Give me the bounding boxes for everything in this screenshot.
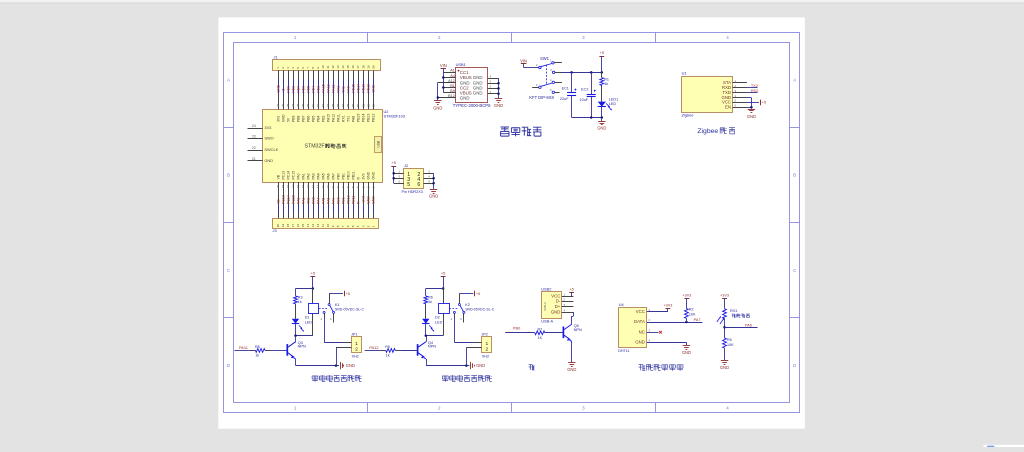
svg-text:PB7: PB7	[301, 115, 305, 122]
svg-text:17: 17	[291, 224, 295, 228]
svg-text:B1: B1	[450, 84, 455, 88]
svg-text:PC14: PC14	[286, 195, 290, 204]
svg-text:VCC: VCC	[636, 309, 645, 314]
svg-text:B12: B12	[448, 94, 455, 98]
svg-text:PB14: PB14	[356, 84, 360, 93]
svg-text:LED: LED	[435, 320, 442, 324]
svg-text:PA6: PA6	[326, 173, 330, 179]
svg-text:Zigbee: Zigbee	[697, 128, 718, 135]
svg-text:PC13: PC13	[281, 171, 285, 180]
svg-text:LED: LED	[609, 102, 617, 106]
svg-text:SWO: SWO	[264, 136, 273, 141]
svg-text:GND: GND	[460, 80, 470, 85]
svg-text:9: 9	[316, 67, 320, 69]
svg-text:+3V3: +3V3	[663, 304, 672, 308]
svg-text:TXD: TXD	[722, 90, 731, 95]
svg-text:PA0: PA0	[296, 198, 300, 204]
svg-text:19: 19	[366, 65, 370, 69]
svg-text:R2: R2	[689, 307, 694, 311]
svg-text:SRD-05VDC-SL-C: SRD-05VDC-SL-C	[335, 307, 365, 311]
svg-text:RXD: RXD	[722, 85, 731, 90]
svg-text:DHT11: DHT11	[618, 349, 629, 353]
svg-text:B: B	[793, 173, 796, 178]
svg-text:+5: +5	[600, 50, 604, 55]
svg-text:GND: GND	[635, 339, 644, 344]
svg-text:PB0: PB0	[336, 197, 340, 204]
svg-text:GND: GND	[281, 114, 285, 122]
svg-text:7: 7	[306, 67, 310, 69]
svg-text:GND: GND	[473, 86, 483, 91]
svg-text:KFT DIP-8X8: KFT DIP-8X8	[529, 95, 554, 100]
svg-text:14: 14	[306, 224, 310, 228]
svg-text:6: 6	[346, 225, 350, 227]
svg-text:A1: A1	[450, 68, 455, 72]
svg-text:R6: R6	[428, 295, 433, 299]
svg-text:PB5: PB5	[311, 115, 315, 122]
svg-text:NPN: NPN	[298, 344, 306, 349]
svg-text:10: 10	[326, 224, 330, 228]
svg-text:GND: GND	[494, 103, 503, 108]
svg-text:XH2: XH2	[352, 355, 359, 359]
svg-text:1: 1	[485, 341, 488, 347]
svg-text:TX1: TX1	[341, 86, 345, 92]
svg-text:2: 2	[366, 225, 370, 227]
svg-text:PB4: PB4	[311, 86, 315, 93]
svg-text:1k: 1k	[604, 82, 608, 86]
svg-text:18: 18	[286, 224, 290, 228]
svg-text:Zigbee: Zigbee	[681, 113, 695, 118]
svg-text:VCC: VCC	[551, 293, 560, 298]
svg-text:PB7: PB7	[296, 86, 300, 93]
svg-text:16: 16	[296, 224, 300, 228]
svg-text:GND: GND	[597, 126, 606, 131]
svg-text:PA7: PA7	[331, 173, 335, 179]
svg-text:J1: J1	[274, 55, 278, 60]
svg-text:13: 13	[336, 65, 340, 69]
svg-text:PB9: PB9	[286, 86, 290, 93]
svg-text:D2: D2	[435, 316, 440, 320]
svg-text:17: 17	[356, 65, 360, 69]
svg-text:1k: 1k	[298, 300, 302, 304]
svg-text:PA12: PA12	[369, 345, 378, 350]
svg-text:GND: GND	[276, 84, 280, 92]
svg-text:14: 14	[341, 65, 345, 69]
svg-text:RX1: RX1	[341, 115, 345, 122]
svg-text:K1: K1	[335, 303, 340, 307]
svg-text:PB0: PB0	[513, 326, 521, 331]
svg-text:Pin HDR2X3: Pin HDR2X3	[402, 190, 423, 194]
svg-text:CC1: CC1	[460, 70, 469, 75]
svg-text:GND: GND	[429, 193, 438, 198]
svg-text:PB0: PB0	[336, 173, 340, 180]
svg-text:CC2: CC2	[460, 86, 469, 91]
svg-text:B: B	[227, 173, 230, 178]
svg-text:11: 11	[321, 224, 325, 227]
svg-text:R7: R7	[537, 327, 542, 331]
svg-text:20: 20	[276, 224, 280, 228]
svg-text:PB11: PB11	[351, 171, 355, 179]
svg-text:GND: GND	[366, 196, 370, 204]
svg-text:GND: GND	[366, 171, 370, 179]
svg-text:TX2: TX2	[751, 83, 758, 88]
svg-text:24: 24	[252, 124, 256, 128]
svg-text:19: 19	[281, 224, 285, 228]
svg-text:SWCLK: SWCLK	[264, 147, 278, 152]
svg-text:PB13: PB13	[366, 114, 370, 122]
svg-text:3: 3	[361, 225, 365, 227]
svg-text:PA2: PA2	[306, 173, 310, 179]
svg-text:PA12: PA12	[331, 114, 335, 122]
svg-text:GND: GND	[433, 105, 442, 110]
svg-text:GND: GND	[567, 367, 576, 372]
svg-text:PB6: PB6	[306, 115, 310, 122]
svg-text:23: 23	[252, 135, 256, 139]
svg-text:11: 11	[326, 65, 330, 68]
svg-text:PB15: PB15	[351, 84, 355, 93]
svg-text:PB8: PB8	[291, 86, 295, 93]
svg-text:R1: R1	[604, 78, 609, 82]
svg-text:15: 15	[346, 65, 350, 69]
svg-text:+5: +5	[762, 100, 766, 105]
svg-text:2: 2	[485, 346, 488, 352]
svg-text:RX2: RX2	[311, 197, 315, 204]
svg-text:VBUS: VBUS	[460, 91, 472, 96]
svg-text:1K: 1K	[538, 336, 543, 340]
svg-text:STA: STA	[723, 80, 731, 85]
svg-text:A12: A12	[448, 79, 455, 83]
svg-text:4: 4	[291, 67, 295, 69]
svg-text:A4: A4	[450, 74, 455, 78]
svg-text:A: A	[793, 78, 796, 83]
svg-text:VIN: VIN	[520, 58, 527, 63]
svg-text:RX1: RX1	[336, 86, 340, 93]
svg-text:PA8: PA8	[351, 116, 355, 122]
svg-text:EC2: EC2	[581, 88, 588, 92]
svg-text:PC13: PC13	[281, 195, 285, 204]
svg-text:D1: D1	[305, 316, 310, 320]
svg-text:+5: +5	[281, 89, 285, 93]
svg-text:5: 5	[351, 225, 355, 227]
svg-text:1k: 1k	[428, 300, 432, 304]
svg-text:PA8: PA8	[346, 86, 350, 92]
svg-text:PA12: PA12	[326, 84, 330, 92]
svg-text:D-: D-	[556, 299, 561, 304]
svg-text:GND: GND	[722, 95, 731, 100]
svg-text:LED: LED	[305, 320, 312, 324]
svg-text:D: D	[227, 363, 230, 368]
svg-text:A: A	[227, 78, 230, 83]
svg-text:12: 12	[331, 65, 335, 69]
svg-text:SRD-05VDC-SL-C: SRD-05VDC-SL-C	[465, 307, 495, 311]
svg-text:PB11: PB11	[351, 196, 355, 204]
svg-text:3V3: 3V3	[361, 173, 365, 179]
svg-text:K2: K2	[465, 303, 470, 307]
svg-text:VB: VB	[276, 199, 280, 204]
svg-text:RG1: RG1	[730, 309, 738, 313]
svg-text:PA0: PA0	[296, 173, 300, 179]
svg-text:SW1: SW1	[540, 56, 550, 61]
svg-text:10K: 10K	[689, 313, 696, 317]
svg-text:EC1: EC1	[562, 86, 569, 90]
svg-text:10uF: 10uF	[580, 98, 589, 102]
svg-text:+5: +5	[441, 271, 445, 276]
svg-text:R9: R9	[385, 345, 390, 349]
svg-text:STM32F103: STM32F103	[384, 114, 405, 119]
svg-text:R5: R5	[727, 338, 732, 342]
svg-text:PB6: PB6	[301, 86, 305, 93]
svg-text:+3V3: +3V3	[720, 294, 729, 298]
svg-text:20: 20	[371, 65, 375, 69]
svg-text:+5: +5	[346, 291, 350, 296]
svg-text:U4: U4	[619, 302, 625, 307]
svg-text:TX1: TX1	[346, 116, 350, 122]
svg-text:+5: +5	[476, 291, 480, 296]
svg-text:DATA: DATA	[634, 319, 645, 324]
svg-text:+5: +5	[391, 160, 395, 165]
svg-text:RX2: RX2	[751, 88, 759, 93]
svg-text:GND: GND	[747, 114, 756, 119]
svg-text:GND: GND	[371, 171, 375, 179]
svg-text:22: 22	[252, 146, 256, 150]
svg-text:PB10: PB10	[346, 171, 350, 179]
svg-text:PA11: PA11	[239, 345, 248, 350]
svg-text:6: 6	[301, 67, 305, 69]
svg-text:PA5: PA5	[321, 173, 325, 179]
svg-text:PA15: PA15	[321, 84, 325, 92]
svg-text:PB3: PB3	[321, 115, 325, 122]
svg-text:GND: GND	[264, 158, 273, 163]
svg-text:PB8: PB8	[296, 115, 300, 122]
svg-text:PA5: PA5	[745, 323, 752, 327]
svg-text:PB4: PB4	[316, 115, 320, 122]
svg-text:XH2: XH2	[482, 355, 489, 359]
svg-text:+3V3: +3V3	[682, 294, 691, 298]
svg-text:+5: +5	[311, 271, 315, 276]
svg-text:12: 12	[316, 224, 320, 228]
svg-text:PB1: PB1	[341, 197, 345, 204]
svg-text:PA7: PA7	[331, 198, 335, 204]
svg-text:GND: GND	[473, 91, 483, 96]
svg-text:USB-A: USB-A	[541, 319, 553, 324]
svg-text:PA3: PA3	[311, 173, 315, 179]
svg-text:+3V3: +3V3	[361, 196, 365, 204]
svg-text:GND: GND	[476, 363, 485, 368]
svg-text:15: 15	[301, 224, 305, 228]
svg-text:22uF: 22uF	[560, 97, 569, 101]
svg-text:5V: 5V	[286, 117, 290, 122]
svg-text:JP1: JP1	[351, 333, 357, 337]
svg-text:PA5: PA5	[321, 198, 325, 204]
svg-text:USB2: USB2	[541, 286, 551, 291]
svg-text:6: 6	[417, 182, 420, 188]
svg-text:TX2: TX2	[306, 198, 310, 204]
svg-text:USB: USB	[377, 141, 381, 148]
svg-text:13: 13	[311, 224, 315, 228]
svg-text:1: 1	[276, 67, 280, 69]
svg-text:5: 5	[407, 182, 410, 188]
svg-text:USB-A: USB-A	[543, 302, 547, 311]
svg-text:C: C	[227, 268, 230, 273]
svg-text:PA1: PA1	[301, 198, 305, 204]
svg-text:4: 4	[356, 225, 360, 227]
svg-text:2: 2	[281, 67, 285, 69]
svg-text:PC15: PC15	[291, 171, 295, 180]
svg-text:B9: B9	[450, 89, 455, 93]
svg-text:PC14: PC14	[286, 171, 290, 180]
svg-text:GND: GND	[371, 84, 375, 92]
svg-text:GND: GND	[551, 309, 560, 314]
svg-text:16: 16	[351, 65, 355, 69]
svg-text:PB10: PB10	[346, 195, 350, 204]
svg-text:1k: 1k	[255, 353, 259, 357]
svg-text:GND: GND	[720, 365, 729, 370]
svg-text:JP2: JP2	[482, 333, 488, 337]
svg-text:PA15: PA15	[326, 114, 330, 122]
svg-text:PB14: PB14	[361, 114, 365, 122]
svg-text:VBUS: VBUS	[460, 75, 472, 80]
svg-text:3V3: 3V3	[264, 125, 271, 130]
svg-text:1: 1	[355, 341, 358, 347]
svg-text:R8: R8	[255, 345, 260, 349]
svg-text:18: 18	[361, 65, 365, 69]
svg-text:PA6: PA6	[326, 198, 330, 204]
svg-text:PB12: PB12	[366, 84, 370, 93]
svg-text:PB3: PB3	[316, 86, 320, 93]
svg-text:1: 1	[371, 225, 375, 227]
svg-text:NPN: NPN	[428, 344, 436, 349]
svg-text:J2: J2	[404, 163, 408, 168]
svg-text:D: D	[793, 363, 796, 368]
svg-text:10: 10	[321, 65, 325, 69]
svg-text:PA4: PA4	[316, 173, 320, 179]
svg-text:3V3: 3V3	[276, 116, 280, 122]
svg-text:PB5: PB5	[306, 86, 310, 93]
svg-text:TYPEC-2000-BCP6: TYPEC-2000-BCP6	[453, 103, 491, 108]
svg-text:VCC: VCC	[722, 100, 731, 105]
svg-text:NPN: NPN	[574, 327, 582, 332]
svg-text:PB12: PB12	[371, 114, 375, 122]
svg-text:J3: J3	[273, 228, 277, 233]
svg-text:5: 5	[296, 67, 300, 69]
svg-text:PB1: PB1	[341, 173, 345, 180]
svg-text:PA7: PA7	[694, 318, 701, 322]
svg-text:D+: D+	[555, 304, 561, 309]
svg-text:7: 7	[341, 225, 345, 227]
svg-text:GND: GND	[682, 350, 691, 355]
svg-text:GND: GND	[460, 96, 470, 101]
svg-text:PA4: PA4	[316, 198, 320, 204]
svg-text:R3: R3	[298, 295, 303, 299]
svg-text:PB15: PB15	[356, 114, 360, 122]
svg-text:PC15: PC15	[291, 195, 295, 204]
svg-text:GND: GND	[371, 196, 375, 204]
svg-text:21: 21	[252, 157, 256, 161]
svg-text:PA11: PA11	[331, 84, 335, 92]
svg-text:GND: GND	[346, 363, 355, 368]
svg-text:10K: 10K	[727, 343, 734, 347]
svg-text:3: 3	[286, 67, 290, 69]
svg-text:VB: VB	[276, 174, 280, 179]
svg-text:C: C	[793, 268, 796, 273]
svg-text:EN: EN	[725, 104, 731, 109]
svg-text:PA1: PA1	[301, 173, 305, 179]
svg-text:LED1: LED1	[609, 98, 618, 102]
svg-text:1k: 1k	[386, 353, 390, 357]
svg-text:PB13: PB13	[361, 84, 365, 93]
svg-text:NC: NC	[639, 330, 645, 335]
svg-text:PA11: PA11	[336, 114, 340, 122]
svg-text:U1: U1	[682, 71, 687, 76]
svg-text:GND: GND	[473, 80, 483, 85]
svg-text:9: 9	[331, 225, 335, 227]
svg-text:8: 8	[336, 225, 340, 227]
svg-text:2: 2	[355, 346, 358, 352]
svg-text:USB1: USB1	[456, 62, 466, 67]
svg-text:VIN: VIN	[440, 63, 447, 68]
svg-text:8: 8	[311, 67, 315, 69]
svg-text:GND: GND	[473, 75, 483, 80]
svg-text:+5: +5	[569, 286, 573, 291]
svg-text:PB9: PB9	[291, 115, 295, 122]
